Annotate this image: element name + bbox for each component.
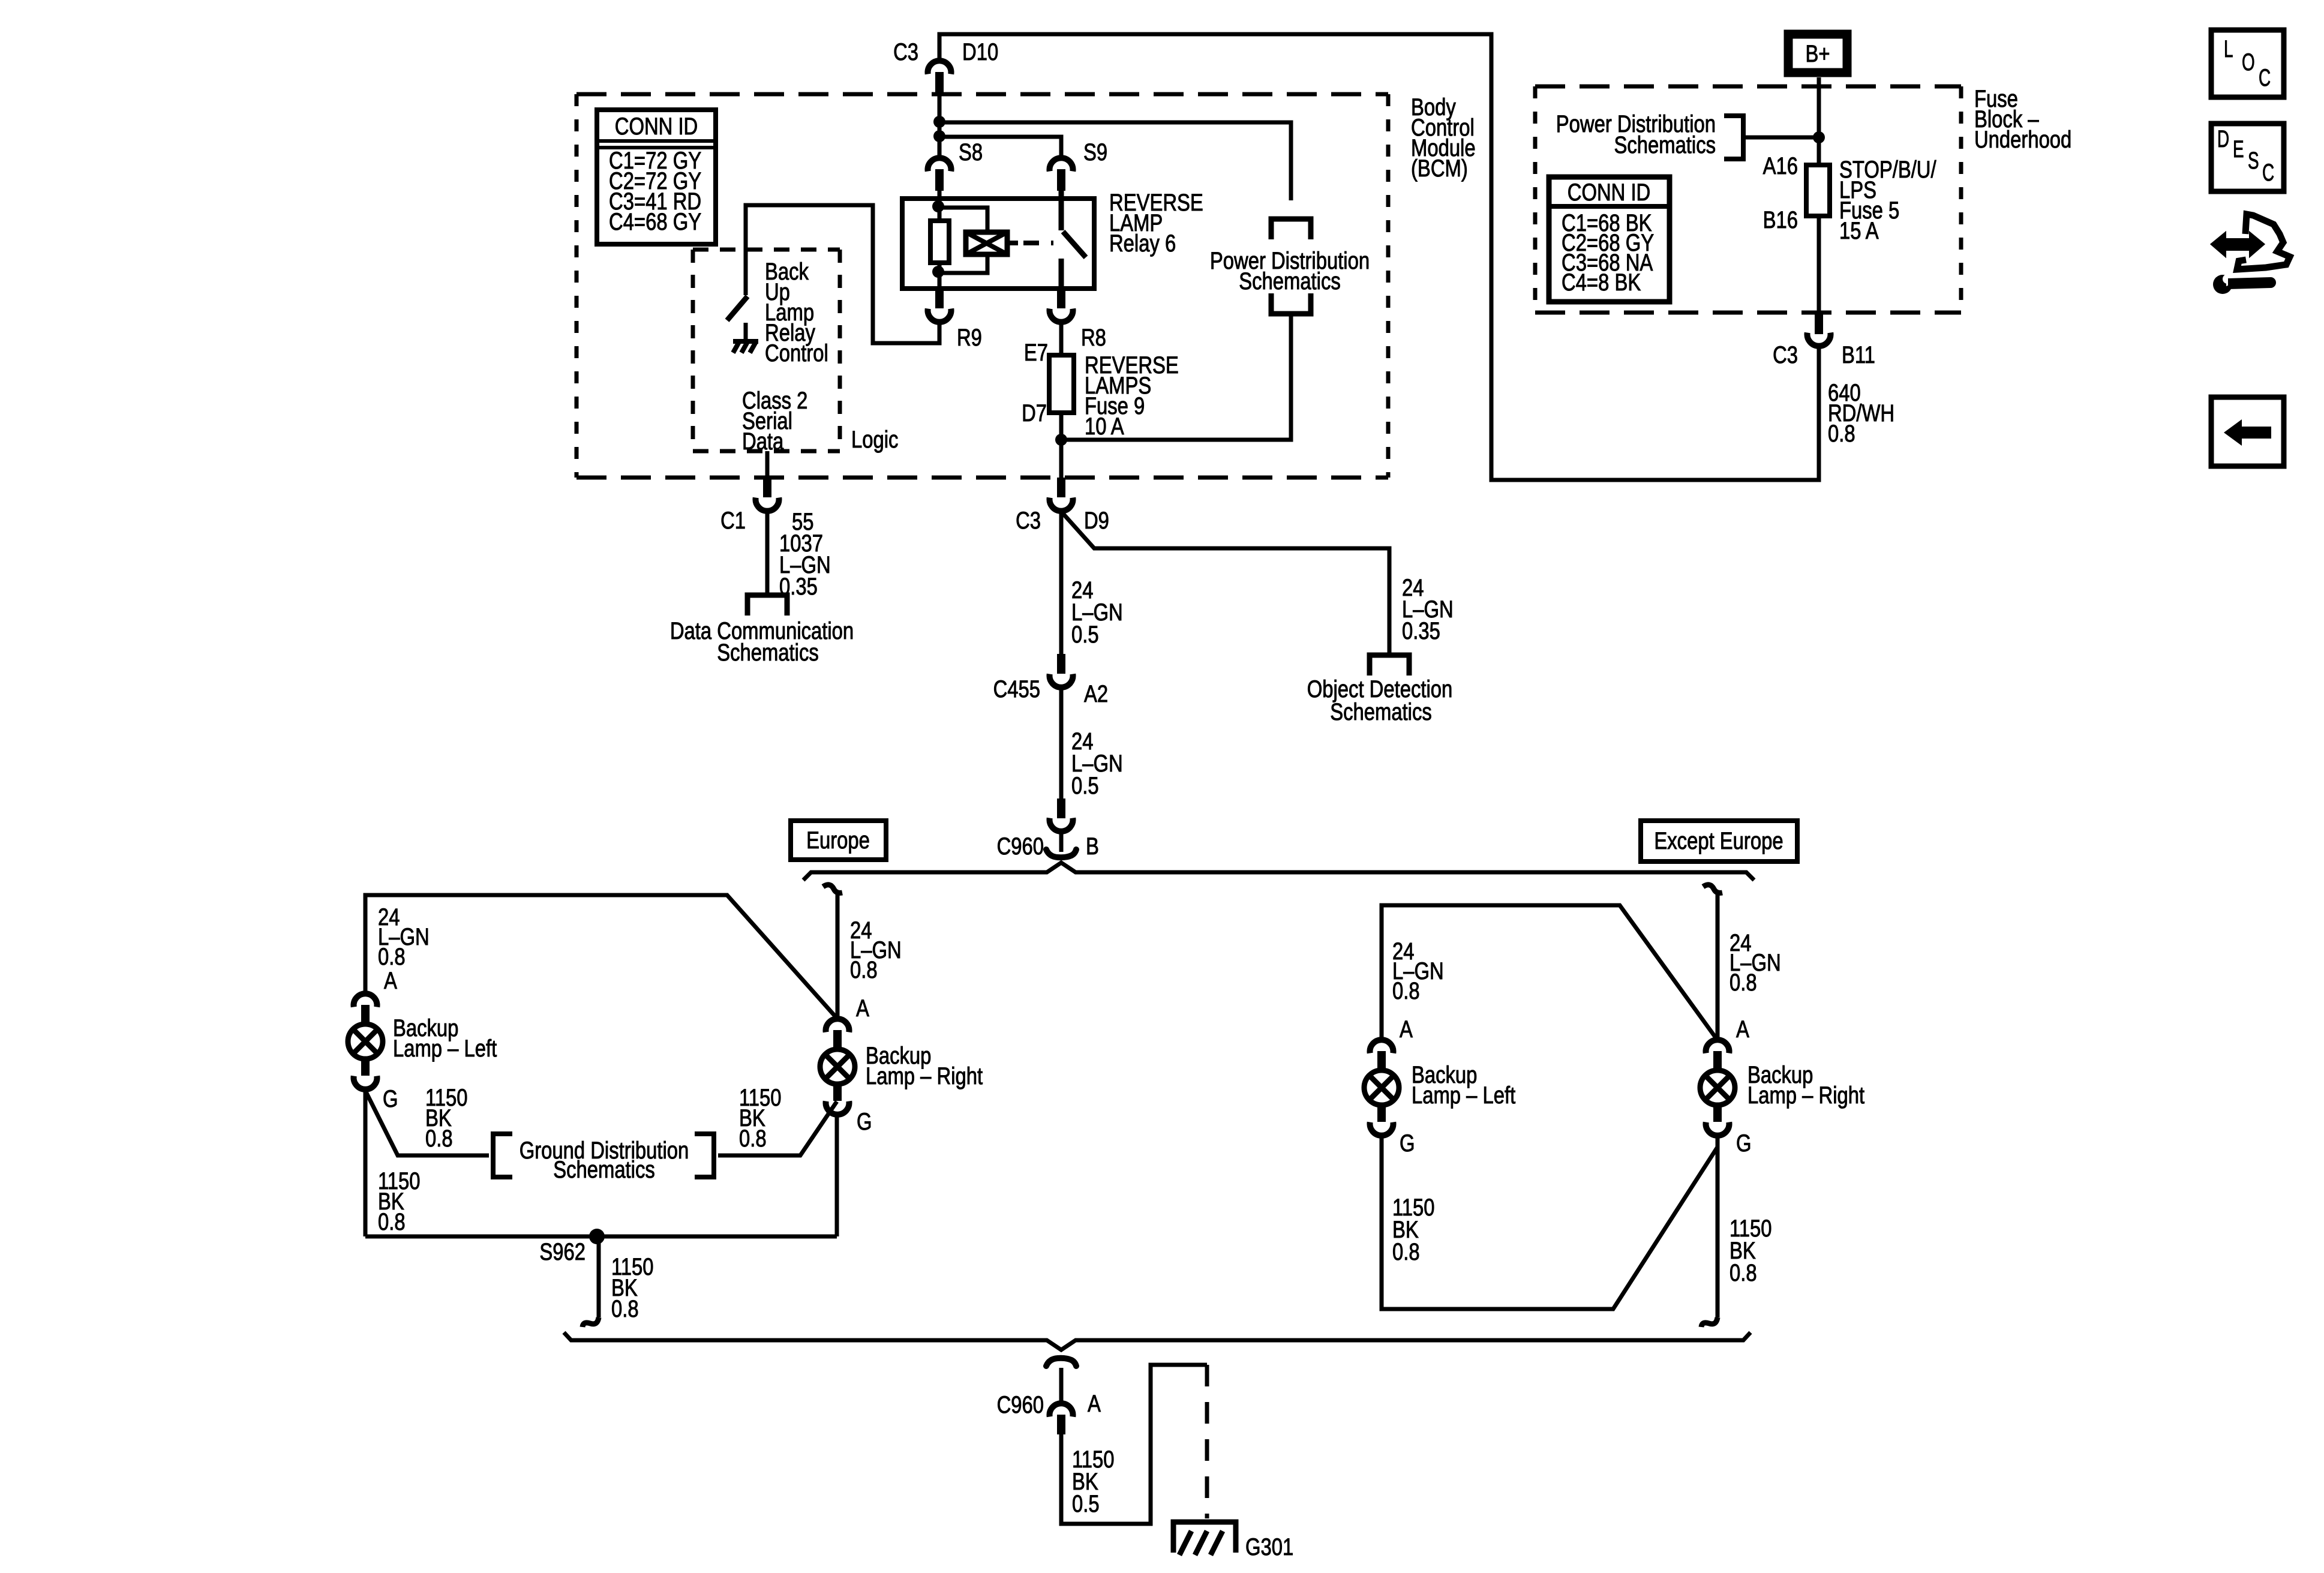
connector terminal G of Backup Lamp - Left (Except Europe): [1370, 1122, 1394, 1136]
svg-text:Schematics: Schematics: [1239, 268, 1341, 295]
svg-text:0.5: 0.5: [1071, 773, 1099, 799]
svg-text:G301: G301: [1245, 1534, 1293, 1560]
connector C3 D9: [1057, 478, 1065, 497]
branch wire to Object Detection (24 L-GN 0.35): [1062, 513, 1389, 653]
svg-text:Data: Data: [742, 428, 784, 455]
svg-text:0.8: 0.8: [425, 1125, 453, 1152]
connector terminal A of Backup Lamp - Right (Europe): [826, 1019, 849, 1032]
relay switch contact: [1059, 188, 1064, 230]
junction node below fuse 9: [1055, 434, 1067, 446]
wire Except left lamp G down and to right lamp G: [1382, 1137, 1718, 1309]
REVERSE LAMP Relay 6 box: [902, 199, 1094, 289]
wire 24 L-GN 0.5 below D9: [1059, 512, 1064, 654]
wire 1150 BK 0.5 to G301: [1061, 1365, 1207, 1524]
wire B+ into fuse block: [1817, 77, 1821, 165]
logic switch arm: [727, 296, 747, 320]
drop hook Europe branch: [823, 885, 842, 893]
svg-text:A: A: [1088, 1391, 1101, 1417]
svg-text:0.8: 0.8: [739, 1125, 767, 1152]
connector terminal G of Backup Lamp - Right (Europe): [826, 1101, 849, 1115]
off-page reference Ground Distribution Schematics: [493, 1134, 512, 1177]
svg-text:0.8: 0.8: [1828, 421, 1855, 447]
wire to Power Distribution reference bottom: [1061, 316, 1291, 440]
ground G301: [1173, 1522, 1236, 1553]
wire 1037 L-GN 0.35: [765, 512, 770, 593]
Body Control Module (BCM) dashed outline: [577, 92, 1388, 97]
svg-text:Europe: Europe: [806, 827, 870, 854]
logic switch contact: [744, 252, 748, 295]
connector C960 B (inline): [1057, 798, 1065, 818]
lamp bulb Backup Lamp - Left (Except Europe): [1364, 1070, 1399, 1105]
svg-text:0.5: 0.5: [1071, 622, 1099, 648]
wire ground distribution to Europe right lamp G: [718, 1101, 837, 1155]
connector C455 A2: [1057, 654, 1065, 674]
relay switch arm: [1063, 232, 1086, 257]
wire S962 splice: [365, 1235, 837, 1239]
svg-text:0.8: 0.8: [378, 944, 406, 970]
connector terminal A of Backup Lamp - Right (Except Europe): [1706, 1040, 1730, 1053]
svg-text:0.8: 0.8: [1392, 978, 1420, 1004]
Back Up Lamp Relay Control dashed box: [693, 248, 840, 252]
wire S962 to bottom brace (1150 BK 0.8): [597, 1236, 601, 1317]
svg-text:C: C: [2259, 65, 2271, 91]
svg-text:Schematics: Schematics: [553, 1157, 655, 1183]
svg-text:S8: S8: [959, 139, 983, 166]
svg-text:L: L: [2224, 36, 2233, 62]
CONN ID table (fuse block): [1549, 177, 1670, 302]
Fuse Block - Underhood dashed outline: [1535, 85, 1961, 89]
junction node at fuse A16: [1813, 131, 1825, 143]
wire C3/D10 into BCM: [938, 92, 942, 157]
off-page reference Object Detection Schematics: [1370, 655, 1409, 676]
connector terminal G of Backup Lamp - Right (Except Europe): [1706, 1122, 1730, 1136]
svg-text:(BCM): (BCM): [1411, 155, 1468, 182]
off-page reference Data Communication Schematics: [747, 595, 787, 616]
relay coil branch wires: [938, 188, 942, 206]
REVERSE LAMPS Fuse 9 10A: [1049, 355, 1074, 413]
svg-text:R8: R8: [1081, 325, 1106, 351]
svg-text:D10: D10: [962, 39, 998, 65]
connector R8: [1057, 289, 1065, 308]
svg-text:C3: C3: [1016, 508, 1041, 534]
junction node below D10: [933, 116, 945, 128]
svg-text:B: B: [1086, 833, 1099, 860]
svg-text:D9: D9: [1084, 508, 1109, 534]
relay coil (box with X): [966, 232, 1007, 254]
wire to relay coil: [939, 208, 987, 233]
svg-text:Lamp – Right: Lamp – Right: [866, 1063, 983, 1089]
drop hook Except Europe branch: [1703, 885, 1722, 893]
LOC icon box: [2211, 30, 2284, 97]
svg-text:Control: Control: [765, 340, 828, 367]
svg-text:Schematics: Schematics: [1614, 132, 1716, 158]
svg-text:Lamp – Left: Lamp – Left: [1412, 1082, 1515, 1109]
svg-text:C1: C1: [720, 508, 746, 534]
wire drop to Europe right lamp A: [836, 894, 840, 1016]
svg-text:B16: B16: [1763, 207, 1798, 233]
svg-text:B11: B11: [1842, 342, 1875, 368]
lamp bulb Backup Lamp - Right (Except Europe): [1700, 1070, 1735, 1105]
svg-text:0.8: 0.8: [611, 1296, 639, 1322]
svg-text:Relay 6: Relay 6: [1109, 230, 1176, 257]
coil actuator stub: [1007, 241, 1018, 245]
svg-text:C3: C3: [1773, 342, 1798, 368]
wire Except right lamp G down to bottom brace: [1716, 1137, 1720, 1317]
svg-text:Lamp – Right: Lamp – Right: [1747, 1082, 1864, 1109]
svg-text:C960: C960: [997, 1392, 1044, 1418]
svg-text:0.8: 0.8: [1392, 1239, 1420, 1265]
svg-text:15 A: 15 A: [1839, 218, 1879, 244]
connector C3 B11: [1815, 314, 1823, 334]
connector C960 A (inline): [1046, 1358, 1076, 1366]
svg-text:Schematics: Schematics: [1330, 699, 1432, 725]
svg-text:A: A: [384, 968, 397, 994]
svg-text:Lamp – Left: Lamp – Left: [393, 1035, 497, 1062]
svg-text:10 A: 10 A: [1085, 413, 1124, 440]
connector C3 D10 at BCM top: [928, 61, 951, 74]
off-page reference Power Distribution Schematics (BCM): [1271, 219, 1311, 239]
DESC icon box: [2211, 124, 2284, 191]
connector R9: [935, 289, 944, 308]
svg-text:A16: A16: [1763, 153, 1798, 179]
wire R8 to fuse 9: [1059, 323, 1064, 355]
svg-text:E7: E7: [1024, 340, 1048, 366]
svg-text:S9: S9: [1083, 139, 1107, 166]
connector C1: [763, 478, 771, 497]
splice S962: [589, 1229, 605, 1244]
svg-text:G: G: [857, 1109, 872, 1135]
svg-text:R9: R9: [957, 325, 982, 351]
svg-text:A2: A2: [1084, 681, 1108, 707]
svg-text:0.8: 0.8: [378, 1209, 406, 1235]
wire Europe feed to left lamp (24 L-GN 0.8): [365, 895, 836, 1017]
distribution brace (top): [803, 863, 1754, 880]
wire Power Distribution reference to B+ feed: [1743, 136, 1819, 140]
svg-text:C3: C3: [893, 39, 918, 65]
wire to relay switch S9: [939, 137, 1061, 157]
collection brace (bottom): [564, 1332, 1750, 1350]
dashed wire to G301: [1205, 1365, 1209, 1518]
wire Except Europe feed to left lamp (24 L-GN 0.8): [1382, 905, 1716, 1038]
back arrow icon box: [2211, 397, 2284, 466]
Europe box: [791, 821, 886, 860]
CONN ID table (BCM): [597, 110, 716, 244]
connector terminal A of Backup Lamp - Left (Europe): [354, 993, 377, 1007]
svg-text:C455: C455: [993, 676, 1040, 703]
wire R9 to Back Up Lamp Relay Control: [746, 205, 939, 343]
svg-text:E: E: [2233, 136, 2244, 163]
wire drop to Except Europe right lamp A: [1716, 894, 1720, 1037]
wire fuse 5 to C3/B11: [1817, 216, 1821, 314]
connector terminal A of Backup Lamp - Left (Except Europe): [1370, 1040, 1394, 1053]
svg-text:S962: S962: [539, 1239, 585, 1265]
svg-text:0.8: 0.8: [850, 957, 878, 983]
svg-text:B+: B+: [1806, 41, 1830, 67]
lamp bulb Backup Lamp - Left (Europe): [348, 1024, 383, 1059]
svg-text:Schematics: Schematics: [717, 640, 819, 666]
svg-text:D: D: [2217, 126, 2229, 152]
lamp bulb Backup Lamp - Right (Europe): [820, 1049, 855, 1084]
svg-text:CONN ID: CONN ID: [615, 113, 698, 140]
Except Europe box: [1641, 821, 1797, 861]
svg-text:A: A: [856, 995, 869, 1022]
svg-text:Logic: Logic: [851, 427, 898, 453]
wire Class 2 Serial Data to C1: [765, 451, 770, 480]
svg-text:CONN ID: CONN ID: [1568, 179, 1651, 206]
wire to Power Distribution reference: [939, 122, 1291, 200]
ground (logic): [744, 323, 748, 341]
wire Europe left lamp G down to S962: [364, 1091, 368, 1236]
wire from fuse C3/B11 to BCM C3/D10 (640 RD/WH): [939, 34, 1819, 480]
wire Europe right lamp G down to S962: [835, 1115, 839, 1236]
dashed actuator linkage: [1023, 241, 1053, 245]
svg-text:C4=8 BK: C4=8 BK: [1562, 269, 1641, 296]
svg-text:S: S: [2248, 148, 2259, 174]
wire Europe left lamp G to ground distribution: [365, 1091, 489, 1155]
svg-text:D7: D7: [1022, 400, 1047, 427]
svg-text:Except Europe: Except Europe: [1654, 828, 1783, 854]
svg-text:G: G: [1736, 1130, 1752, 1157]
svg-text:G: G: [1400, 1130, 1415, 1157]
vehicle repair icon: [2237, 214, 2290, 269]
connector terminal G of Backup Lamp - Left (Europe): [354, 1076, 377, 1089]
svg-text:C: C: [2262, 160, 2274, 186]
wire fuse 9 to C3/D9: [1059, 413, 1064, 480]
svg-text:A: A: [1400, 1016, 1413, 1043]
svg-text:C4=68 GY: C4=68 GY: [609, 209, 701, 235]
wire 24 L-GN 0.5 below A2: [1059, 688, 1064, 798]
svg-text:C960: C960: [997, 833, 1044, 860]
off-page reference Power Distribution Schematics (fuse block): [1724, 116, 1743, 159]
relay resistor: [938, 206, 942, 221]
svg-text:O: O: [2242, 49, 2255, 76]
svg-text:0.5: 0.5: [1072, 1491, 1100, 1517]
svg-text:A: A: [1736, 1016, 1749, 1043]
svg-text:G: G: [383, 1086, 398, 1112]
svg-text:Underhood: Underhood: [1974, 127, 2071, 153]
svg-text:0.8: 0.8: [1730, 969, 1757, 996]
svg-text:0.8: 0.8: [1730, 1260, 1757, 1286]
B+ power symbol: [1788, 34, 1847, 73]
svg-text:0.35: 0.35: [1402, 618, 1440, 644]
